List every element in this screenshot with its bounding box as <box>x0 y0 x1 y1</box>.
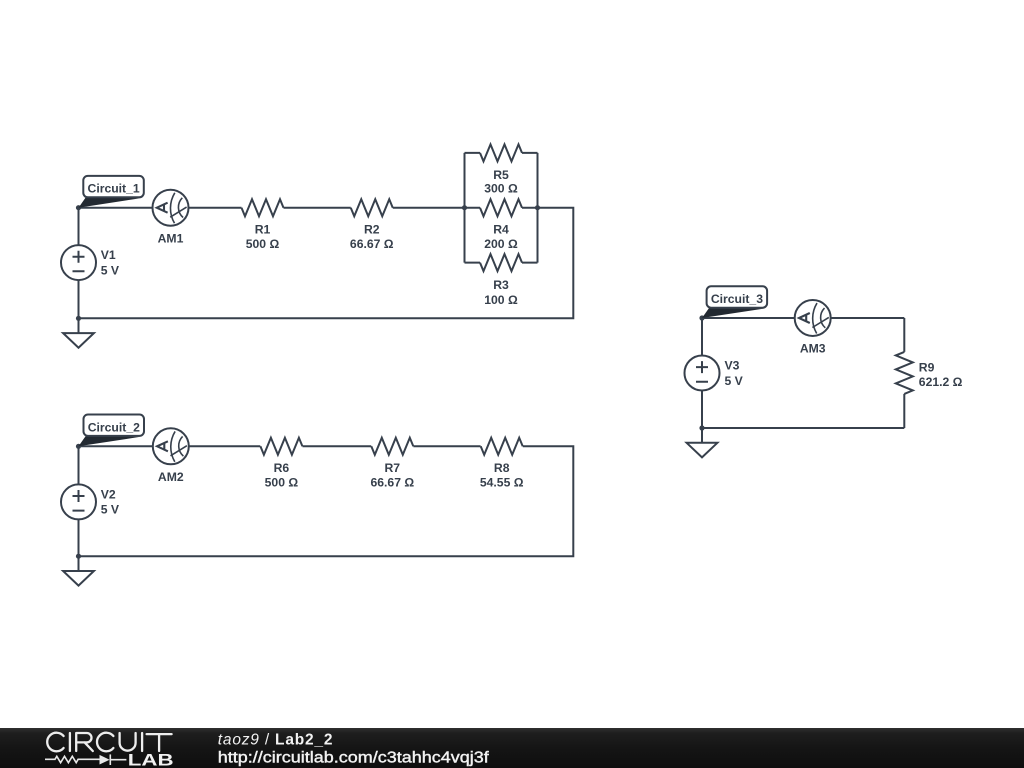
svg-text:5 V: 5 V <box>101 503 120 517</box>
svg-text:66.67 Ω: 66.67 Ω <box>370 476 414 490</box>
svg-text:500 Ω: 500 Ω <box>246 237 280 251</box>
svg-text:5 V: 5 V <box>101 263 120 277</box>
svg-text:100 Ω: 100 Ω <box>484 293 518 307</box>
svg-text:R3: R3 <box>493 278 509 292</box>
svg-text:200 Ω: 200 Ω <box>484 237 518 251</box>
svg-text:AM3: AM3 <box>800 342 826 356</box>
svg-text:R4: R4 <box>493 222 509 236</box>
svg-text:R5: R5 <box>493 168 509 182</box>
svg-text:V1: V1 <box>101 248 116 262</box>
svg-text:5 V: 5 V <box>725 374 744 388</box>
svg-text:LAB: LAB <box>128 752 174 768</box>
svg-text:621.2 Ω: 621.2 Ω <box>919 375 963 389</box>
svg-text:Circuit_2: Circuit_2 <box>88 420 140 434</box>
svg-text:300 Ω: 300 Ω <box>484 182 518 196</box>
svg-text:AM2: AM2 <box>158 470 184 484</box>
svg-text:54.55 Ω: 54.55 Ω <box>480 476 524 490</box>
svg-text:R8: R8 <box>494 461 510 475</box>
svg-text:R1: R1 <box>255 222 271 236</box>
svg-text:http://circuitlab.com/c3tahhc4: http://circuitlab.com/c3tahhc4vqj3f <box>218 750 490 767</box>
svg-text:R6: R6 <box>274 461 290 475</box>
svg-text:R7: R7 <box>385 461 401 475</box>
svg-text:Circuit_3: Circuit_3 <box>711 292 763 306</box>
svg-text:R9: R9 <box>919 361 935 375</box>
svg-text:500 Ω: 500 Ω <box>265 476 299 490</box>
svg-text:R2: R2 <box>364 222 380 236</box>
svg-text:V2: V2 <box>101 487 116 501</box>
svg-text:Circuit_1: Circuit_1 <box>88 182 140 196</box>
svg-text:taoz9 / Lab2_2: taoz9 / Lab2_2 <box>218 731 333 748</box>
svg-text:66.67 Ω: 66.67 Ω <box>350 237 394 251</box>
svg-text:AM1: AM1 <box>158 232 184 246</box>
svg-text:V3: V3 <box>725 358 740 372</box>
